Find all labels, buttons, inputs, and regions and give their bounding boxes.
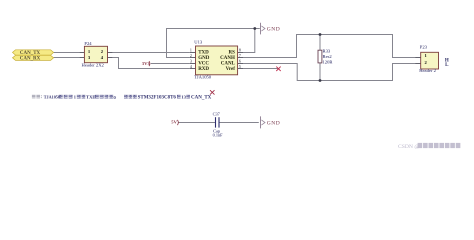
svg-text:120R: 120R [323, 60, 334, 65]
svg-text:5: 5 [239, 64, 241, 69]
svg-text:0.1nF: 0.1nF [213, 132, 224, 137]
svg-text:VCC: VCC [198, 62, 209, 67]
svg-text:P23: P23 [420, 44, 428, 49]
svg-text:TXD: TXD [86, 95, 96, 100]
svg-text:TJA1050: TJA1050 [44, 95, 60, 100]
svg-text:CAN_RX: CAN_RX [20, 57, 41, 62]
svg-text:Res2: Res2 [323, 54, 333, 59]
svg-text:GND: GND [267, 26, 280, 32]
svg-text:1: 1 [74, 95, 76, 100]
svg-text:RS: RS [228, 51, 235, 56]
svg-text:C37: C37 [213, 111, 221, 116]
svg-text:Vref: Vref [226, 67, 236, 72]
svg-text:STM32F103C8T6: STM32F103C8T6 [138, 96, 177, 101]
svg-text:TXD: TXD [198, 51, 209, 56]
svg-text:1: 1 [190, 47, 192, 52]
svg-text:7: 7 [239, 53, 241, 58]
svg-text:GND: GND [198, 56, 210, 61]
svg-text:2: 2 [190, 53, 192, 58]
svg-text:GND: GND [267, 121, 280, 127]
svg-text:P24: P24 [84, 41, 92, 46]
svg-text:Header 2X2: Header 2X2 [82, 62, 105, 67]
svg-text:CANL: CANL [221, 62, 236, 67]
svg-text:13: 13 [181, 95, 186, 100]
svg-text:Header 2: Header 2 [419, 68, 436, 73]
svg-text:CANH: CANH [220, 56, 235, 61]
svg-text:4: 4 [190, 64, 192, 69]
svg-text:3: 3 [190, 58, 192, 63]
svg-text:CAN_TX: CAN_TX [20, 51, 41, 56]
svg-text:5V: 5V [171, 119, 177, 124]
svg-text:TJA1050: TJA1050 [194, 74, 212, 79]
svg-text:8: 8 [239, 47, 241, 52]
svg-text:U13: U13 [194, 39, 203, 44]
svg-text:CAN_TX: CAN_TX [191, 96, 212, 101]
svg-text:6: 6 [239, 58, 241, 63]
svg-text:R33: R33 [323, 48, 331, 53]
svg-text:CSDN @: CSDN @ [398, 144, 419, 150]
svg-text:RXD: RXD [198, 67, 209, 72]
